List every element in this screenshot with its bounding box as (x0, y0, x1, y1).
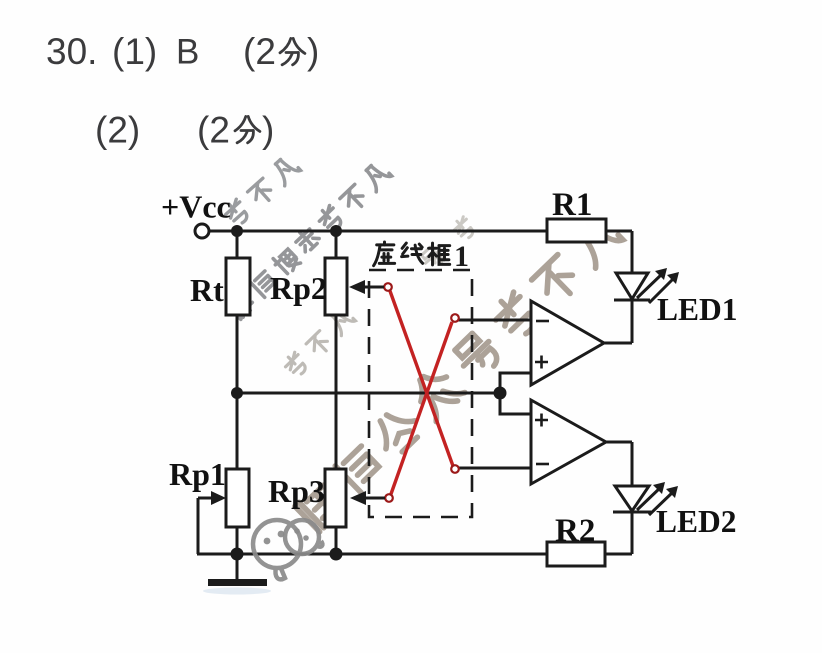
wire op1 output (604, 300, 632, 343)
wechat logo (253, 520, 322, 579)
watermark text B (227, 291, 255, 319)
op-amp U2 (531, 400, 606, 484)
svg-text:Rt: Rt (190, 272, 224, 308)
dashed box 虚线框1 (369, 270, 472, 517)
wire bottom rail (197, 553, 547, 556)
red node TL (384, 283, 392, 291)
wire op2 minus input (459, 467, 531, 470)
wire Rt top (236, 231, 239, 258)
ground (208, 579, 267, 586)
red cross wire 2 (391, 322, 452, 494)
node dot op inputs (494, 387, 507, 400)
svg-text:B: B (176, 33, 199, 72)
watermark text A (222, 198, 251, 228)
red node BR (451, 465, 459, 473)
svg-text:Rp2: Rp2 (270, 270, 327, 306)
wire Rp1 bottom (236, 527, 239, 554)
node dot bottom-Rp1 (231, 548, 244, 561)
wire mid horizontal (237, 392, 500, 395)
wire Rp1 wiper (198, 498, 214, 554)
wire LED2 bottom to R2 (605, 512, 632, 554)
resistor Rp3 (325, 469, 346, 527)
svg-text:Rp1: Rp1 (169, 456, 226, 492)
LED1 (614, 273, 674, 303)
wire Rp3 bottom (335, 527, 338, 554)
red node TR (451, 314, 459, 322)
label 虚线框1 glyphs (374, 242, 395, 266)
svg-text:+Vcc: +Vcc (161, 189, 231, 225)
resistor R2 (547, 542, 605, 566)
wire Rp2 wiper (354, 286, 384, 289)
svg-text:): ) (262, 110, 274, 151)
svg-text:30.: 30. (46, 31, 97, 72)
wire op2 plus step (500, 393, 531, 414)
terminal +Vcc circle (195, 224, 209, 238)
wire op2 output (606, 442, 632, 486)
svg-text:(2): (2) (95, 110, 140, 151)
node dot rail-Rt (231, 225, 243, 237)
resistor Rp1 (226, 469, 249, 527)
svg-text:LED1: LED1 (657, 292, 738, 327)
watermark text C (295, 482, 345, 532)
wire Rp2 to Rp3 (335, 315, 338, 469)
svg-text:Rp3: Rp3 (268, 473, 325, 509)
svg-text:R2: R2 (555, 513, 595, 549)
watermark text E (420, 245, 446, 271)
wire ground stub (236, 554, 239, 580)
resistor R1 (547, 219, 606, 242)
wire op1 minus input (458, 319, 531, 322)
op-amp U1 (531, 301, 604, 385)
glyph fen line1 (280, 38, 305, 64)
svg-text:(2: (2 (243, 31, 276, 72)
resistor Rp2 (325, 258, 347, 315)
wire Rt bottom to mid node (236, 315, 239, 393)
wire R1 right / LED1 top (606, 231, 632, 273)
wire Rp2 top (335, 231, 338, 258)
node dot bottom-Rp3 (330, 548, 343, 561)
svg-text:1: 1 (454, 240, 469, 273)
red node BL (385, 494, 393, 502)
svg-text:LED2: LED2 (656, 504, 737, 539)
svg-text:R1: R1 (552, 187, 592, 223)
LED2 (613, 486, 674, 515)
node dot mid-Rt (231, 387, 243, 399)
svg-text:(1): (1) (112, 31, 157, 72)
wire op1 plus step (500, 373, 531, 393)
watermark text D (282, 351, 309, 378)
svg-text:): ) (307, 31, 319, 72)
node dot rail-Rp2 (330, 225, 342, 237)
resistor Rt (226, 258, 250, 315)
arrow Rp1 wiper (211, 491, 226, 505)
red cross wire 1 (390, 291, 453, 466)
svg-text:(2: (2 (197, 110, 230, 151)
wire Vcc rail (209, 230, 547, 233)
wire mid node to Rp1 (236, 393, 239, 469)
wire Rp3 wiper (354, 497, 385, 500)
